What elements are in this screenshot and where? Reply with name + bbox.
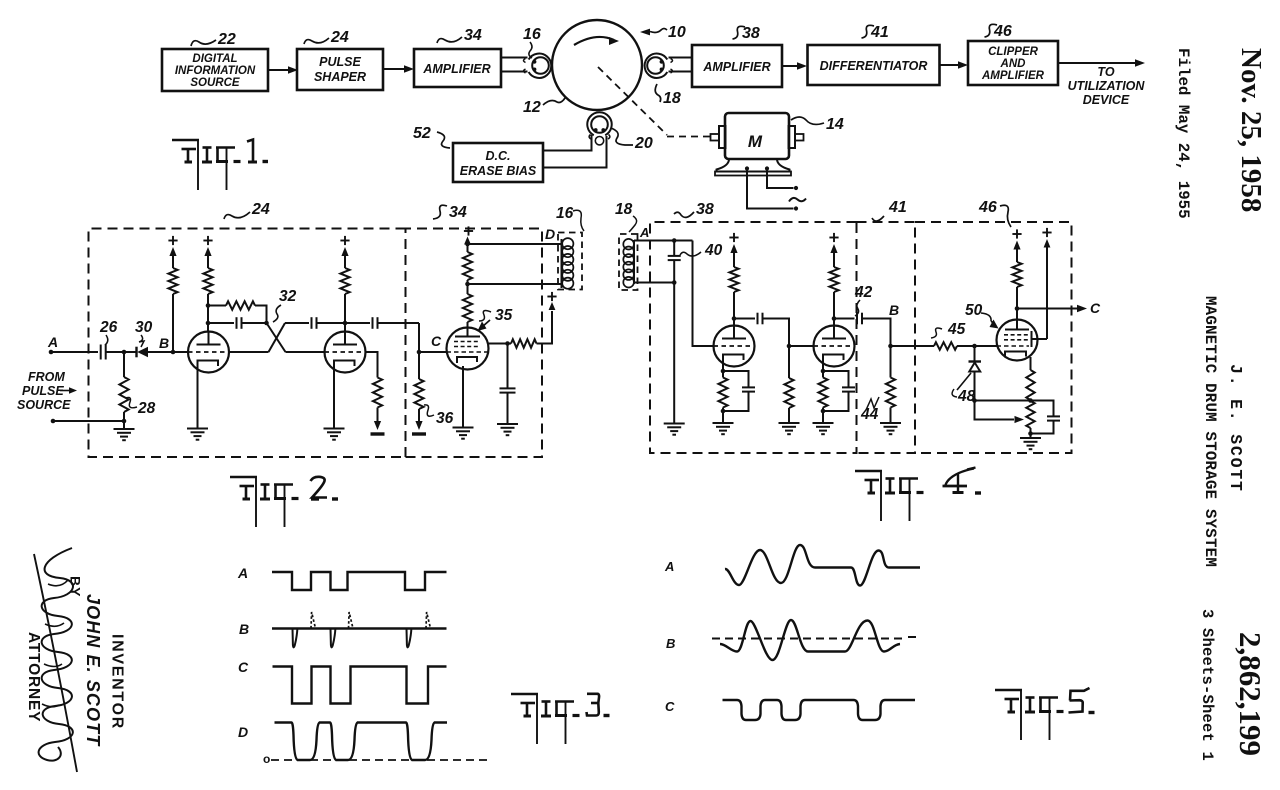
wire arrow shaper to amplifier — [383, 68, 404, 70]
negative bias arrow — [374, 421, 381, 430]
plus supply V4 — [729, 237, 738, 239]
capacitor 40 — [673, 241, 675, 256]
waveform C fig5 clipped — [723, 700, 916, 720]
wire to V5 grid — [789, 345, 814, 347]
wire amplifier to head 16 — [501, 57, 528, 59]
svg-text:C: C — [431, 333, 442, 349]
svg-text:M: M — [748, 132, 763, 151]
waveform C fig3 — [273, 667, 447, 704]
plus supply B resistor — [168, 240, 177, 242]
figure label Fig.1. — [172, 139, 199, 142]
svg-text:TO: TO — [1097, 65, 1114, 79]
svg-text:32: 32 — [279, 288, 297, 305]
svg-text:DIGITAL: DIGITAL — [192, 53, 237, 65]
svg-text:UTILIZATION: UTILIZATION — [1068, 79, 1146, 93]
wire to V6 grid — [975, 345, 997, 347]
ground input — [123, 421, 125, 429]
svg-text:14: 14 — [826, 116, 844, 133]
svg-text:CLIPPER: CLIPPER — [988, 46, 1039, 58]
svg-text:35: 35 — [495, 307, 513, 324]
svg-text:10: 10 — [668, 24, 686, 41]
svg-text:3 Sheets-Sheet 1: 3 Sheets-Sheet 1 — [1198, 609, 1216, 761]
wire V3 cathode ground — [462, 366, 464, 427]
plus supply V3 — [464, 230, 473, 232]
waveform B fig3 baseline — [272, 627, 447, 629]
figure label Fig.2. — [230, 476, 257, 479]
plus supply V2 — [340, 240, 349, 242]
resistor V2 grid bias — [373, 378, 382, 408]
wire head 18 to amplifier 38 — [669, 57, 693, 59]
capacitor coupling V1 plate — [208, 322, 234, 324]
svg-text:41: 41 — [888, 199, 907, 216]
svg-text:48: 48 — [957, 388, 976, 405]
svg-text:INFORMATION: INFORMATION — [175, 65, 256, 77]
figure label Fig.4. — [855, 470, 882, 473]
diode 48 — [974, 346, 976, 361]
attorney signature — [34, 554, 77, 772]
svg-text:12: 12 — [523, 99, 541, 116]
svg-text:D: D — [545, 226, 555, 242]
ground V6 cathode — [1030, 434, 1032, 439]
wire cross down-diagonal — [267, 323, 286, 352]
playback coil 18 detail — [619, 234, 638, 290]
ground bypass capacitor — [497, 423, 518, 425]
svg-text:A: A — [639, 225, 649, 240]
svg-text:16: 16 — [556, 205, 574, 222]
svg-text:52: 52 — [413, 125, 431, 142]
wire erase bias to head 20 — [543, 135, 592, 151]
resistor V3 supply upper — [467, 280, 469, 284]
figure label Fig.5. — [995, 689, 1022, 692]
svg-text:24: 24 — [251, 201, 270, 218]
triode V1 — [188, 332, 229, 373]
figure label Fig.3. — [511, 693, 538, 696]
resistor 32 cross coupling — [208, 305, 226, 307]
block 24 pulse shaper — [297, 49, 383, 90]
wire arrow amplifier to differentiator — [782, 65, 797, 67]
svg-text:B: B — [666, 636, 675, 651]
svg-text:45: 45 — [947, 321, 966, 338]
svg-text:PULSE: PULSE — [22, 384, 64, 398]
wire cross up-diagonal — [269, 323, 286, 352]
motor base — [717, 159, 790, 172]
svg-text:PULSE: PULSE — [319, 55, 361, 69]
svg-text:34: 34 — [464, 27, 482, 44]
waveform B negative spikes — [293, 629, 298, 648]
svg-text:C: C — [665, 699, 675, 714]
wire coil bottom — [634, 282, 674, 284]
resistor 28 — [123, 352, 125, 377]
waveform D zero dashed line — [271, 759, 488, 761]
resistor 45 — [934, 342, 957, 350]
wire cap to junction — [106, 351, 137, 353]
wire arrow differentiator to clipper — [940, 64, 958, 66]
waveform A fig3 — [272, 572, 447, 590]
resistor B to plus supply — [172, 294, 174, 352]
svg-text:C: C — [238, 659, 249, 675]
wire node B to section 46 — [891, 345, 935, 347]
node A terminal — [49, 350, 54, 355]
potentiometer cathode — [1026, 401, 1034, 428]
resistor V5 plate — [833, 251, 835, 267]
svg-text:44: 44 — [860, 406, 879, 423]
svg-text:SOURCE: SOURCE — [17, 398, 71, 412]
svg-text:J. E. SCOTT: J. E. SCOTT — [1226, 364, 1245, 493]
wire node C output — [1017, 308, 1077, 310]
svg-text:INVENTOR: INVENTOR — [109, 634, 126, 730]
pentode V6 clipper 50 — [997, 320, 1038, 361]
dashed box differentiator 41 detail — [857, 222, 916, 453]
waveform B fig5 differentiated — [720, 620, 900, 660]
wire node C to V3 grid — [419, 351, 447, 353]
wire coil top to grid V4 — [634, 240, 693, 242]
svg-text:ERASE BIAS: ERASE BIAS — [460, 164, 537, 178]
wire input A — [51, 351, 98, 353]
resistor V3 plate load — [467, 322, 469, 328]
resistor 36 — [418, 352, 420, 379]
svg-text:Filed May 24, 1955: Filed May 24, 1955 — [1174, 48, 1192, 219]
diode 30 — [135, 347, 137, 358]
resistor V1 plate supply — [207, 323, 209, 332]
bypass capacitor screen — [507, 344, 509, 389]
svg-text:2,862,199: 2,862,199 — [1233, 632, 1268, 756]
svg-text:AMPLIFIER: AMPLIFIER — [981, 70, 1045, 82]
motor 14 — [725, 113, 789, 159]
svg-text:AMPLIFIER: AMPLIFIER — [702, 60, 770, 74]
svg-text:22: 22 — [217, 31, 236, 48]
wire V2 grid to bias resistor — [366, 352, 378, 378]
wiper wire from diode — [975, 401, 1015, 420]
svg-text:ATTORNEY: ATTORNEY — [25, 632, 42, 722]
svg-text:DIFFERENTIATOR: DIFFERENTIATOR — [820, 59, 928, 73]
block 52 dc erase bias — [453, 143, 543, 182]
wire cross to V2 grid — [286, 351, 325, 353]
node B — [171, 350, 176, 355]
block 38 amplifier — [692, 45, 782, 87]
svg-text:BY: BY — [68, 576, 84, 597]
capacitor cathode bypass V6 — [975, 400, 1031, 402]
lower input terminal — [51, 419, 56, 424]
dashed drum shaft to motor — [598, 67, 667, 135]
capacitor output coupling — [345, 322, 370, 324]
wire lower input — [53, 420, 124, 422]
resistor V4 plate — [733, 251, 735, 267]
svg-text:Nov. 25, 1958: Nov. 25, 1958 — [1235, 48, 1267, 212]
resistor 44 — [890, 346, 892, 378]
erase head 20 — [587, 112, 611, 135]
capacitor 42 differentiator — [834, 318, 855, 320]
svg-text:46: 46 — [978, 199, 997, 216]
svg-text:18: 18 — [663, 90, 681, 107]
ground V4 cathode — [713, 422, 734, 424]
svg-text:16: 16 — [523, 26, 541, 43]
wire to ground coil — [673, 283, 675, 424]
dashed box clipper 46 detail — [915, 222, 1072, 453]
triode V4 — [714, 326, 755, 367]
svg-text:AND: AND — [1000, 58, 1026, 70]
waveform D fig3 — [275, 723, 448, 761]
svg-text:D.C.: D.C. — [486, 149, 511, 163]
svg-text:34: 34 — [449, 204, 467, 221]
svg-text:18: 18 — [615, 201, 633, 218]
screen grid resistor V3 — [489, 343, 506, 345]
svg-text:A: A — [664, 559, 674, 574]
triode V2 — [325, 332, 366, 373]
triode V5 — [814, 326, 855, 367]
svg-text:B: B — [889, 302, 899, 318]
wire diode to node B — [148, 351, 188, 353]
capacitor coupling V4 to V5 — [734, 318, 755, 320]
capacitor coupling V2 plate — [285, 322, 309, 324]
wire supply to coil D upper — [468, 243, 562, 245]
cathode network V5 — [822, 362, 824, 371]
record head 18 — [645, 54, 668, 78]
ground V5 cathode — [813, 422, 834, 424]
svg-text:40: 40 — [704, 242, 723, 259]
drum rotation arrow — [574, 37, 614, 45]
svg-text:36: 36 — [436, 410, 454, 427]
negative bias resistor 36 — [415, 421, 422, 430]
svg-text:B: B — [159, 335, 169, 351]
svg-text:26: 26 — [99, 319, 118, 336]
svg-text:DEVICE: DEVICE — [1083, 93, 1130, 107]
wire arrow to utilization device — [1058, 62, 1135, 64]
cathode network V4 — [722, 362, 724, 371]
svg-text:JOHN E. SCOTT: JOHN E. SCOTT — [83, 594, 103, 747]
drum 10 — [552, 20, 642, 110]
cathode resistor V6 — [1030, 357, 1032, 370]
resistor V5 grid leak — [788, 346, 790, 378]
dashed box pulse shaper 24 detail — [89, 229, 406, 458]
waveform A fig5 analog — [725, 545, 920, 586]
svg-text:FROM: FROM — [28, 370, 65, 384]
svg-text:AMPLIFIER: AMPLIFIER — [422, 62, 490, 76]
svg-text:A: A — [237, 565, 248, 581]
svg-text:20: 20 — [634, 135, 653, 152]
record head 16 — [529, 54, 552, 78]
block 34 amplifier — [414, 49, 501, 87]
svg-text:C: C — [1090, 300, 1101, 316]
wire V2 cathode ground — [333, 362, 335, 428]
capacitor 26 — [100, 345, 102, 360]
plus supply V1 — [203, 240, 212, 242]
svg-text:30: 30 — [135, 319, 153, 336]
ac source tilde — [789, 198, 806, 202]
ground V5 grid resistor — [779, 422, 800, 424]
svg-text:50: 50 — [965, 302, 983, 319]
screen tap V6 — [1031, 331, 1033, 347]
plus supply V6 plate — [1012, 233, 1021, 235]
record coil 16 detail — [558, 233, 582, 290]
svg-text:SHAPER: SHAPER — [314, 70, 366, 84]
pentode V3 amplifier 35 — [447, 328, 489, 370]
svg-text:A: A — [47, 334, 58, 350]
wire arrow source to shaper — [268, 69, 288, 71]
motor power wires to ac source — [745, 166, 749, 170]
svg-text:MAGNETIC DRUM STORAGE SYSTEM: MAGNETIC DRUM STORAGE SYSTEM — [1201, 296, 1219, 567]
wire V1 cathode to ground — [197, 362, 199, 428]
plus supply V5 — [829, 237, 838, 239]
dashed box amplifier 34 detail — [406, 229, 543, 458]
wire output to node C — [418, 323, 420, 352]
svg-text:38: 38 — [696, 201, 714, 218]
ground resistor 44 — [880, 422, 901, 424]
svg-text:28: 28 — [137, 400, 156, 417]
svg-text:o: o — [263, 752, 270, 766]
block 46 clipper and amplifier — [968, 41, 1058, 85]
plus supply screen V6 — [1046, 247, 1048, 339]
svg-text:SOURCE: SOURCE — [190, 77, 240, 89]
svg-text:B: B — [239, 621, 249, 637]
waveform B dashed spikes — [311, 612, 316, 629]
resistor V2 plate supply — [343, 321, 348, 326]
ground V1 cathode — [187, 428, 208, 430]
wire V1 grid to cross — [229, 351, 269, 353]
waveform B threshold dashed — [712, 638, 906, 640]
ground coil detail — [664, 423, 685, 425]
svg-text:D: D — [238, 724, 248, 740]
svg-text:24: 24 — [330, 29, 349, 46]
plus supply screen — [547, 296, 556, 298]
dashed box amplifier 38 detail — [650, 222, 857, 453]
ground V2 cathode — [324, 428, 345, 430]
wire plate to coil D lower — [468, 283, 562, 285]
svg-text:42: 42 — [854, 284, 873, 301]
block 41 differentiator — [808, 45, 940, 85]
resistor V6 plate — [1016, 309, 1018, 320]
block 22 digital information source — [162, 49, 268, 91]
